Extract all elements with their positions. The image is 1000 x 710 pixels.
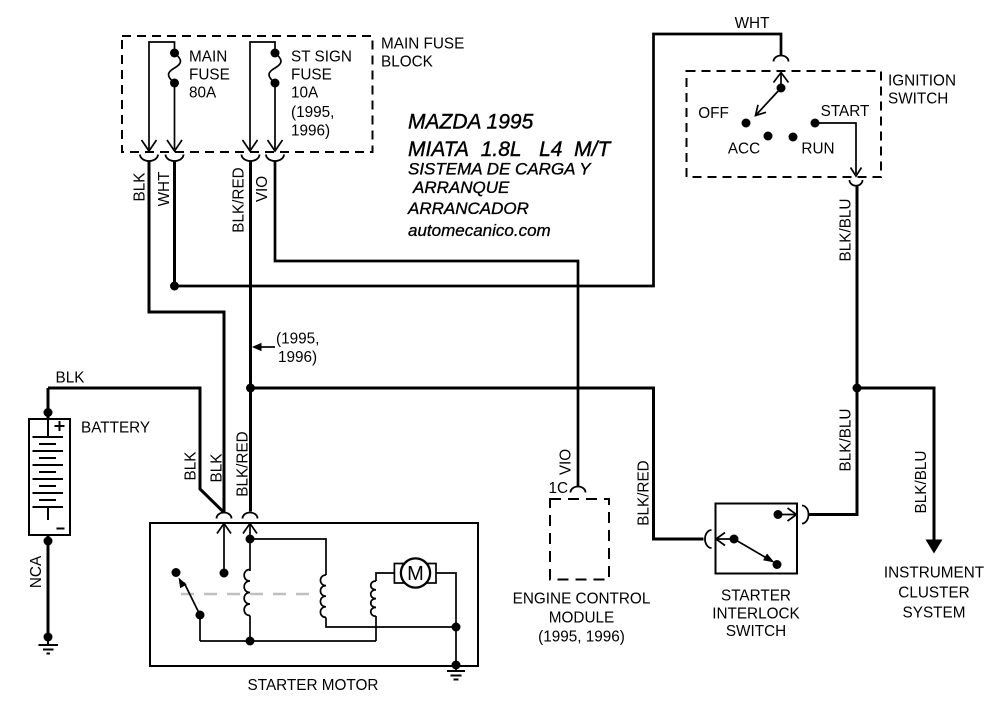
svg-text:1C: 1C [548,480,568,497]
svg-text:ENGINE CONTROL: ENGINE CONTROL [513,591,651,608]
svg-text:BATTERY: BATTERY [81,420,150,437]
svg-text:SYSTEM: SYSTEM [903,605,966,622]
svg-text:ARRANCADOR: ARRANCADOR [407,199,529,218]
svg-text:1996): 1996) [291,123,330,140]
svg-text:(1995,: (1995, [291,104,334,121]
svg-text:OFF: OFF [698,105,729,122]
svg-text:SISTEMA DE CARGA Y: SISTEMA DE CARGA Y [408,160,592,179]
svg-text:80A: 80A [189,85,217,102]
svg-text:1996): 1996) [278,349,317,366]
svg-text:WHT: WHT [735,15,770,32]
svg-text:STARTER: STARTER [721,588,791,605]
svg-text:START: START [821,103,870,120]
svg-text:MAZDA 1995: MAZDA 1995 [408,111,534,134]
svg-text:VIO: VIO [558,449,575,475]
svg-text:BLK: BLK [56,370,86,387]
svg-text:STARTER MOTOR: STARTER MOTOR [248,677,379,694]
svg-text:BLK/BLU: BLK/BLU [838,409,855,472]
svg-text:(1995, 1996): (1995, 1996) [538,629,625,646]
svg-text:BLOCK: BLOCK [381,54,434,71]
svg-text:INSTRUMENT: INSTRUMENT [884,565,984,582]
svg-text:ST SIGN: ST SIGN [291,49,352,66]
svg-text:automecanico.com: automecanico.com [408,221,551,240]
svg-text:ARRANQUE: ARRANQUE [412,178,510,197]
svg-text:BLK/RED: BLK/RED [231,167,248,232]
svg-text:M: M [407,563,424,585]
svg-text:MODULE: MODULE [549,610,614,627]
svg-text:BLK/BLU: BLK/BLU [838,199,855,262]
svg-text:MAIN: MAIN [189,49,227,66]
svg-text:ACC: ACC [728,141,760,158]
svg-text:BLK: BLK [209,453,226,483]
svg-text:SWITCH: SWITCH [888,91,948,108]
svg-text:BLK/BLU: BLK/BLU [913,451,930,514]
svg-text:RUN: RUN [801,141,834,158]
svg-text:FUSE: FUSE [291,67,332,84]
svg-text:INTERLOCK: INTERLOCK [712,606,800,623]
svg-text:CLUSTER: CLUSTER [898,585,969,602]
svg-text:(1995,: (1995, [276,331,319,348]
svg-text:BLK: BLK [183,451,200,481]
svg-text:10A: 10A [291,85,319,102]
svg-text:WHT: WHT [156,172,173,207]
svg-text:NCA: NCA [28,555,45,588]
svg-text:SWITCH: SWITCH [726,623,786,640]
svg-text:IGNITION: IGNITION [888,73,956,90]
svg-text:MIATA 1.8L L4 M/T: MIATA 1.8L L4 M/T [408,138,612,161]
svg-text:BLK/RED: BLK/RED [636,460,653,525]
svg-text:BLK/RED: BLK/RED [235,431,252,496]
svg-text:MAIN FUSE: MAIN FUSE [381,36,464,53]
svg-text:FUSE: FUSE [189,67,230,84]
svg-text:BLK: BLK [132,172,149,202]
svg-text:VIO: VIO [254,176,271,202]
